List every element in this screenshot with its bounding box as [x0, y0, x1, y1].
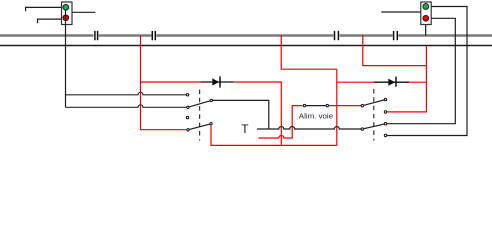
red supply bus (bottom): [211, 126, 337, 145]
red wire terminal A2 to right relay contact K3 common: [329, 105, 361, 107]
left signal mast wire down to relay wires: [65, 10, 67, 107]
diode D2: [374, 77, 409, 87]
right signal mast wire to rail1: [425, 25, 427, 36]
right signal S2 head: [421, 2, 431, 25]
left relay K1 top throw contact: [186, 94, 188, 96]
black wire left relay K1 common to transformer wire: [213, 100, 269, 128]
left relay K1 common contact: [210, 99, 212, 101]
left signal S1 green lamp: [63, 4, 69, 10]
left relay K2 top throw contact (open): [186, 116, 188, 118]
red wire from rail1 middle section down and over to middle node: [281, 36, 337, 70]
right signal S2 green lamp: [423, 4, 429, 10]
black wire to left relay K1 bottom throw (hops red): [66, 105, 187, 108]
red wire from rail1 right section down and over: [363, 36, 427, 66]
right relay contact K3 blade: [364, 100, 384, 105]
black wire right relay K4 bottom throw to right signal green lamp: [387, 7, 467, 136]
right relay K4 top throw contact: [384, 123, 386, 125]
red wire diode D1 cathode down to supply bus: [234, 82, 282, 145]
right relay K3 top throw contact: [384, 98, 386, 100]
right signal S2 red lamp: [423, 15, 429, 21]
wire stub to left signal red lamp: [38, 19, 62, 23]
left relay K2 bottom throw contact: [187, 129, 189, 131]
red middle vertical node wire down to bus: [336, 69, 338, 145]
black wire A1-A2 between supply terminals: [306, 105, 326, 107]
wire stub into right signal common: [381, 11, 421, 13]
wire stub from left signal common: [72, 11, 95, 13]
red wire middle node to diode D2 anode: [337, 81, 374, 83]
black wire to left relay K1 top throw (hops red): [66, 92, 187, 95]
left relay armature (dashed link): [199, 90, 201, 141]
right relay K4 common contact: [361, 128, 363, 130]
right relay K3 common contact: [361, 105, 363, 107]
left signal S1 head: [62, 2, 73, 25]
supply terminal A1: [303, 104, 305, 106]
svg-text:T: T: [241, 122, 249, 136]
insulated joint IJ1 on rail 1: [95, 31, 98, 40]
black wire right relay K4 top throw to right signal red lamp: [387, 18, 455, 123]
black wire transformer T upper terminal to right relay K4 common (3 hops): [257, 127, 361, 129]
insulated joint IJ3 on rail 1: [335, 31, 339, 40]
left relay K1 bottom throw contact: [187, 106, 189, 108]
rail 2 (lower rail, black, continuous): [0, 45, 492, 47]
right relay K3 bottom throw contact: [384, 111, 386, 113]
supply terminal A2: [326, 104, 328, 106]
red wire rail2 down to right relay contact K3 bottom throw: [387, 46, 426, 112]
wire stub to left signal green lamp: [26, 7, 62, 11]
red wire transformer T lower terminal to supply terminal A1 (hops over vertical): [259, 106, 303, 138]
svg-text:Alim. voie: Alim. voie: [299, 112, 333, 121]
right relay K4 bottom throw contact: [384, 134, 386, 136]
insulated joint IJ4 on rail 1: [394, 31, 398, 40]
left signal S1 red lamp: [63, 15, 69, 21]
right relay armature (dashed link): [373, 89, 375, 141]
red wire diode D2 cathode to right vertical: [409, 81, 426, 83]
left relay contact K1 blade: [189, 101, 210, 107]
left relay contact K2 blade: [189, 124, 209, 129]
red wire rail1 to diode D1 anode: [141, 81, 201, 83]
right relay contact K4 blade: [364, 124, 384, 129]
diode D1: [200, 76, 233, 87]
left relay K2 common contact: [210, 123, 212, 125]
rail 1 (upper rail, gray, with insulated joint gaps): [0, 34, 492, 36]
insulated joint IJ2 on rail 1: [152, 31, 155, 40]
red feed wire from rail1 left section down to left relay contact K2: [141, 36, 187, 130]
